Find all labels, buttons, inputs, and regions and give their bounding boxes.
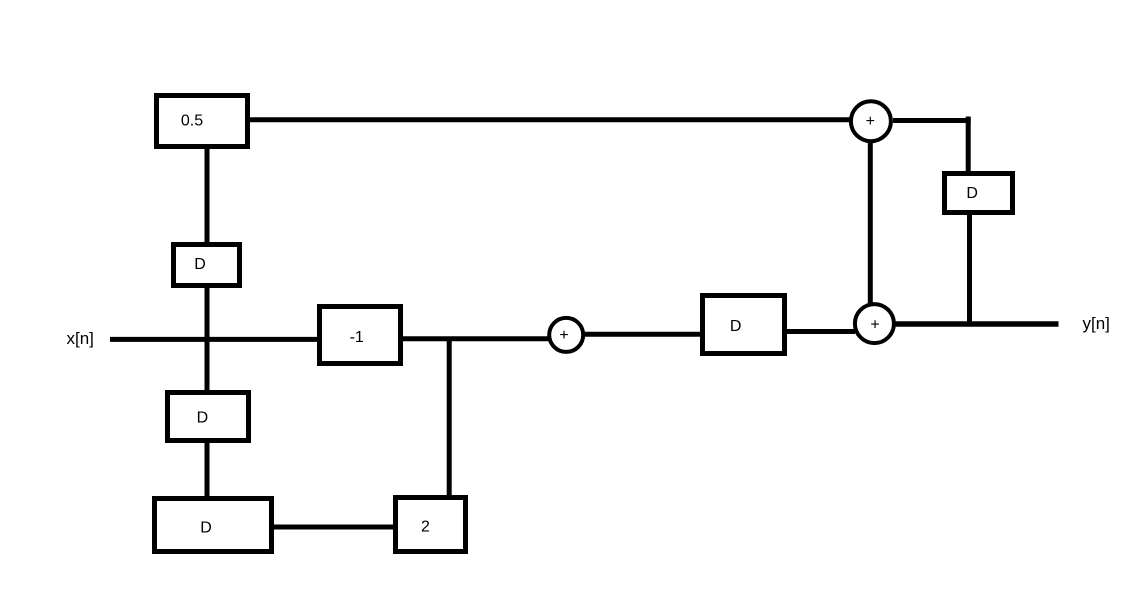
svg-text:+: + bbox=[870, 317, 879, 334]
delay D5 bbox=[155, 499, 272, 552]
svg-text:D: D bbox=[200, 520, 212, 537]
wire: delay D3 output to adder S2 bbox=[785, 329, 855, 334]
gain block 0.5 bbox=[157, 96, 248, 147]
wire: x[n] input line to -1 block bbox=[110, 337, 319, 342]
adder S2 bbox=[855, 304, 894, 343]
delay D2 bbox=[168, 393, 249, 441]
gain block -1 bbox=[320, 307, 401, 364]
svg-text:+: + bbox=[866, 113, 875, 130]
wire: adder S3 down to adder S2 bbox=[868, 141, 873, 305]
wire: adder S2 output line to y[n] bbox=[895, 321, 1059, 327]
svg-text:D: D bbox=[730, 318, 742, 335]
svg-text:D: D bbox=[197, 409, 209, 426]
adder S1 bbox=[549, 318, 583, 352]
wire: corner down to delay D4 input bbox=[966, 117, 971, 175]
wire: -1 block output to adder S1 bbox=[401, 336, 549, 341]
svg-text:+: + bbox=[559, 327, 568, 344]
svg-text:2: 2 bbox=[421, 519, 430, 536]
delay D3 bbox=[703, 296, 785, 354]
svg-text:-1: -1 bbox=[350, 329, 364, 346]
wire: junction down to gain block 2 bbox=[447, 338, 452, 497]
gain block 2 bbox=[396, 498, 466, 552]
wire: delay D5 output to gain block 2 bbox=[272, 525, 397, 530]
wire: delay D2 down to delay D5 bbox=[205, 441, 210, 498]
wire: adder S3 output horizontal to corner bbox=[893, 118, 971, 123]
svg-text:D: D bbox=[966, 185, 978, 202]
wire: delay D4 output down to y[n] line bbox=[967, 213, 972, 324]
wire: delay D1 down through x[n] line to delay D2 bbox=[205, 286, 210, 393]
wire: 0.5 block down to delay D1 bbox=[205, 142, 210, 244]
svg-text:x[n]: x[n] bbox=[67, 329, 94, 348]
delay D4 bbox=[945, 174, 1013, 213]
wire: adder S1 output to delay D3 bbox=[583, 332, 702, 337]
adder S3 bbox=[851, 101, 891, 141]
wire: 0.5 block output top line to adder S3 bbox=[250, 117, 851, 122]
svg-text:0.5: 0.5 bbox=[181, 112, 203, 129]
svg-text:D: D bbox=[194, 256, 206, 273]
svg-text:y[n]: y[n] bbox=[1083, 314, 1110, 333]
delay D1 bbox=[174, 245, 240, 286]
